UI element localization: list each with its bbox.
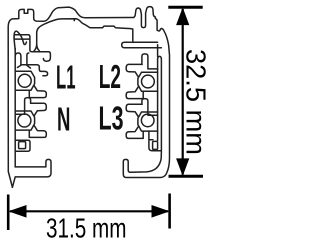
- right unit 2: lower lip: [126, 127, 143, 139]
- conductor L3: [141, 114, 154, 127]
- left foot bar with up hook: [12, 159, 51, 187]
- svg-text:N: N: [57, 101, 70, 138]
- right unit 1: lower lip: [126, 87, 143, 99]
- right unit 2: post: [142, 99, 158, 116]
- horizontal dimension right tick: [168, 194, 171, 229]
- inner hump tick: [73, 19, 75, 21]
- right unit 1: arm and upper lip: [126, 64, 142, 77]
- svg-text:32.5 mm: 32.5 mm: [181, 49, 211, 155]
- horizontal dimension line: [10, 210, 168, 212]
- right unit 2: arm and upper lip: [126, 104, 142, 117]
- left shelf bottom edge: [15, 38, 29, 40]
- vertical dimension bottom cap: [169, 175, 204, 178]
- left unit 1: lower lip: [29, 86, 46, 98]
- svg-text:L1: L1: [56, 59, 76, 96]
- left unit 1: chamber: [15, 71, 34, 90]
- right wall slot box: [149, 131, 162, 151]
- left wall slot hole: [19, 142, 26, 149]
- vertical dimension arrow up: [177, 9, 189, 25]
- left wall slot box: [15, 140, 30, 151]
- conductor L2: [142, 75, 155, 88]
- svg-text:L2: L2: [99, 58, 121, 95]
- left conductor unit 2: post: [15, 98, 30, 115]
- inner ceiling with hump: [37, 19, 133, 44]
- horizontal dimension left arrow: [10, 206, 26, 217]
- conductor L1: [18, 74, 31, 87]
- svg-text:L3: L3: [99, 100, 124, 137]
- left unit 1: channel between wall and post: [15, 53, 21, 68]
- left unit 2: arm and upper lip: [31, 103, 47, 116]
- vertical dimension arrow down: [177, 159, 189, 175]
- conductor N: [18, 114, 31, 127]
- svg-text:31.5 mm: 31.5 mm: [46, 213, 127, 242]
- right unit 2: chamber: [138, 112, 158, 131]
- vertical dimension top cap: [168, 6, 202, 9]
- dimension graphics: [8, 7, 203, 230]
- vertical dimension line: [182, 9, 184, 175]
- right unit 1: post: [142, 54, 158, 69]
- left unit 2: lower lip: [29, 126, 46, 138]
- right column top bar: [122, 42, 162, 47]
- right wall slot hole: [153, 141, 158, 149]
- left shelf with step, arm and hook: [15, 35, 50, 61]
- ceiling drop flare feet: [34, 44, 39, 51]
- left unit 1: arm and upper lip: [21, 65, 48, 76]
- right wall screw slot: [158, 56, 162, 150]
- left unit 1: post line under arm: [27, 53, 31, 68]
- track outer profile silhouette: [8, 7, 169, 188]
- right wall inner edge top: [157, 45, 159, 57]
- left wall inner top arch: [14, 31, 26, 50]
- horizontal dimension left tick: [7, 195, 10, 231]
- left wall inner edge: [14, 49, 16, 167]
- right unit 1: chamber: [138, 72, 158, 91]
- left unit 2: chamber: [15, 111, 34, 130]
- horizontal dimension right arrow: [152, 206, 168, 217]
